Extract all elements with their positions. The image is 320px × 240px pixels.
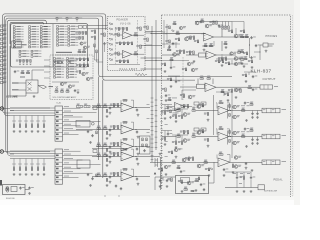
resistor R62 xyxy=(250,128,253,132)
wire stack fanout xyxy=(63,168,81,170)
ground xyxy=(251,66,254,69)
resistor R45 xyxy=(57,44,67,46)
op-amp U4 xyxy=(206,51,216,59)
ground xyxy=(243,190,246,193)
resistor R112 xyxy=(176,31,179,35)
label tap xyxy=(30,120,34,123)
resistor R216 xyxy=(225,62,230,65)
resistor R70 xyxy=(54,71,64,73)
resistor R210 xyxy=(241,49,244,53)
capacitor C27 xyxy=(236,176,242,179)
connector pin P1 xyxy=(0,24,6,27)
resistor R105 xyxy=(136,27,141,30)
ground xyxy=(37,130,40,133)
resistor R183 xyxy=(167,178,172,181)
resistor R206 xyxy=(194,40,199,43)
wire bus xyxy=(10,112,55,114)
transistor Q10 xyxy=(234,34,241,38)
capacitor C34 xyxy=(252,75,258,78)
resistor R35 xyxy=(110,153,115,156)
resistor R5 xyxy=(13,36,23,38)
wire preamp fb xyxy=(121,169,134,176)
resistor R21 xyxy=(40,31,50,33)
transistor Q3 xyxy=(82,72,89,75)
capacitor C17 xyxy=(244,128,250,131)
svg-text:PEDAL: PEDAL xyxy=(274,178,284,181)
wire preamp output xyxy=(133,107,150,109)
resistor R5 xyxy=(199,104,204,107)
connector J3 terminal strip xyxy=(262,134,280,139)
ground xyxy=(175,156,178,159)
wire right drops xyxy=(232,22,236,35)
ground xyxy=(225,46,228,49)
resistor R207 xyxy=(228,30,233,33)
switch S6 xyxy=(79,26,83,29)
ground xyxy=(164,70,167,73)
capacitor C10 xyxy=(87,130,89,133)
transformer T1 xyxy=(6,187,9,190)
resistor R86 xyxy=(84,64,89,67)
capacitor C35 xyxy=(175,80,181,83)
resistor R70 xyxy=(106,159,108,162)
resistor R75 xyxy=(67,63,77,65)
ground xyxy=(236,190,239,193)
resistor R72 xyxy=(54,76,64,78)
wire input bus 1 xyxy=(3,14,106,110)
resistor R33 xyxy=(97,153,100,157)
label fanout xyxy=(64,170,73,173)
resistor R181 xyxy=(195,178,198,182)
svg-text:4558: 4558 xyxy=(123,170,127,172)
resistor R57 xyxy=(204,113,209,116)
label header xyxy=(56,52,72,53)
arrow output xyxy=(38,86,47,89)
wire preamp input xyxy=(92,107,121,109)
resistor R37 xyxy=(97,173,100,177)
resistor R52 xyxy=(68,42,78,44)
capacitor C8 xyxy=(165,94,171,97)
svg-text:4558: 4558 xyxy=(123,123,127,125)
label b12 xyxy=(20,77,25,78)
svg-text:1SS-133: 1SS-133 xyxy=(192,133,199,135)
transistor Q37 xyxy=(174,148,181,151)
wire tap xyxy=(37,116,39,125)
diode D7 xyxy=(109,54,112,56)
op-amp U2 xyxy=(123,51,133,59)
resistor R231 xyxy=(219,152,223,156)
wire stack fanout xyxy=(63,177,79,179)
resistor R44 xyxy=(57,42,67,44)
label tap xyxy=(42,120,46,123)
transistor Q12 xyxy=(173,53,180,57)
transistor Q7 xyxy=(185,37,192,41)
connector pin P13 xyxy=(0,77,6,80)
switch S10 cross xyxy=(56,86,59,89)
wire stack fanout xyxy=(63,155,97,157)
label tape2 xyxy=(12,89,19,90)
resistor R44 xyxy=(31,124,33,127)
resistor R39 xyxy=(57,28,67,30)
wire tap xyxy=(25,159,27,168)
ground xyxy=(137,163,140,166)
resistor R103 xyxy=(120,60,125,63)
ground xyxy=(19,130,22,133)
junction xyxy=(222,55,223,56)
junction xyxy=(230,136,231,137)
label fanout xyxy=(64,157,73,160)
label terminal xyxy=(282,134,287,137)
resistor R241 xyxy=(96,50,98,53)
resistor R135 xyxy=(228,89,233,92)
ground xyxy=(159,185,162,188)
ground xyxy=(106,115,109,118)
svg-text:1SS-133: 1SS-133 xyxy=(192,107,199,109)
power amp enclosure dashed border xyxy=(162,15,291,197)
wire bus xyxy=(10,107,55,109)
junction xyxy=(230,110,231,111)
resistor R12 xyxy=(29,31,39,33)
wire phones drops xyxy=(250,38,261,60)
resistor R114 xyxy=(190,36,195,39)
label fanout xyxy=(64,123,71,126)
resistor R48 xyxy=(68,31,78,33)
connector pin P9 xyxy=(0,59,6,62)
ground xyxy=(137,114,140,117)
resistor R7 xyxy=(229,114,231,117)
ground xyxy=(165,99,168,102)
ground xyxy=(245,145,248,148)
ground xyxy=(169,116,172,119)
wire bottom row xyxy=(150,162,218,164)
capacitor C41 xyxy=(223,168,229,171)
junction xyxy=(202,33,203,34)
resistor R30 xyxy=(104,143,107,147)
resistor R66 xyxy=(106,132,108,135)
resistor R38 xyxy=(57,26,67,28)
resistor R97 xyxy=(134,51,137,55)
svg-text:PHONES: PHONES xyxy=(266,35,278,38)
resistor R4 xyxy=(192,108,195,112)
resistor R3 xyxy=(184,105,189,108)
transistor Q7 xyxy=(233,131,240,135)
wire upper drops xyxy=(95,47,104,62)
resistor R65 xyxy=(123,121,127,123)
diode D5 xyxy=(109,43,112,45)
ground xyxy=(109,134,112,137)
resistor R49 xyxy=(68,34,78,36)
resistor R262 xyxy=(168,97,171,101)
ground xyxy=(245,119,248,122)
resistor R50 xyxy=(68,36,78,38)
resistor R1 xyxy=(13,26,23,28)
op-amp U4 xyxy=(121,125,133,134)
resistor R12 xyxy=(192,134,195,138)
diode D10 xyxy=(172,30,175,32)
wire fb loop xyxy=(216,103,230,111)
resistor R202 xyxy=(175,38,180,41)
wire inner dotted rail 2 xyxy=(137,20,139,64)
regulator box xyxy=(176,176,209,194)
wire cap drops xyxy=(253,111,258,113)
wire stack fanout xyxy=(63,172,93,174)
capacitor C9 xyxy=(109,176,114,179)
svg-text:KLH-1847: KLH-1847 xyxy=(120,67,138,71)
svg-text:PEAKER: PEAKER xyxy=(117,19,129,22)
resistor R220 xyxy=(221,89,224,93)
wire preamp input xyxy=(92,176,121,178)
op-amp U5 xyxy=(205,83,216,92)
diode D4 xyxy=(109,38,112,40)
resistor R107 xyxy=(91,30,96,33)
resistor R57 xyxy=(75,37,80,40)
capacitor C20 xyxy=(136,148,138,151)
wire top right xyxy=(232,22,244,31)
ic connector stack A xyxy=(55,106,63,141)
resistor R255 xyxy=(146,144,148,147)
switch contact S3 xyxy=(76,17,82,22)
wire amp nets xyxy=(52,62,84,82)
transistor Q24 xyxy=(197,164,204,168)
switch S7 xyxy=(83,26,87,29)
resistor R58 xyxy=(250,102,253,106)
diode D6 xyxy=(109,49,112,51)
resistor R54 xyxy=(75,32,80,35)
wire tap xyxy=(37,159,39,168)
resistor R84 xyxy=(76,64,81,67)
label tap xyxy=(18,120,22,123)
op-amp U3 xyxy=(121,103,133,112)
ground xyxy=(245,167,248,170)
resistor R68 xyxy=(106,149,108,152)
wire row input xyxy=(162,110,176,112)
eq network box xyxy=(140,136,151,154)
ground xyxy=(166,185,169,188)
connector pin P10 xyxy=(0,63,6,66)
resistor R213 xyxy=(161,63,166,66)
resistor R136 xyxy=(236,89,241,92)
capacitor C5 xyxy=(109,107,114,110)
resistor R98 xyxy=(116,42,121,45)
wire fb loop xyxy=(216,129,230,137)
junction xyxy=(136,146,137,147)
resistor R71 xyxy=(123,168,127,170)
resistor R132 network box xyxy=(197,84,205,88)
resistor R92 xyxy=(119,28,124,31)
resistor R20 xyxy=(178,141,183,144)
resistor R23 xyxy=(110,104,115,107)
capacitor C2 xyxy=(256,112,258,115)
switch contact S1 xyxy=(56,17,62,22)
wire row in bias xyxy=(162,105,172,112)
wire preamp input xyxy=(76,129,121,131)
junction xyxy=(166,33,167,34)
resistor R89 xyxy=(61,89,64,93)
resistor R243 xyxy=(191,190,194,192)
resistor R121 xyxy=(241,34,244,38)
wire upper output xyxy=(214,30,249,51)
transistor Q11 xyxy=(234,57,241,61)
wire rail bends A xyxy=(3,110,10,116)
transistor Q5 xyxy=(60,82,67,85)
transistor Q34 xyxy=(234,62,241,65)
capacitor C24 xyxy=(200,183,206,186)
wire stack fanout xyxy=(63,107,81,109)
resistor R106 xyxy=(136,45,141,48)
resistor R116 xyxy=(209,21,214,24)
resistor R68 xyxy=(54,66,64,68)
transistor Q32 xyxy=(187,62,194,65)
label tape1 xyxy=(12,82,19,83)
ground xyxy=(208,174,211,177)
ground xyxy=(37,173,40,176)
ground xyxy=(256,116,259,119)
label tap xyxy=(42,163,46,166)
junction xyxy=(260,52,261,53)
resistor R11 xyxy=(184,131,189,134)
resistor R64 xyxy=(106,110,108,113)
capacitor C1 xyxy=(69,60,74,63)
wire pedal feed xyxy=(225,172,237,176)
resistor R51 xyxy=(68,39,78,41)
wire tap xyxy=(31,116,33,125)
capacitor C7 xyxy=(109,146,114,149)
resistor R252 xyxy=(142,138,144,141)
wire stack fanout xyxy=(63,150,81,152)
wire bus xyxy=(10,153,55,155)
ground xyxy=(137,183,140,186)
resistor R123 xyxy=(241,57,244,61)
resistor R115 xyxy=(201,19,204,23)
resistor R124 xyxy=(168,47,171,51)
wire rail taps xyxy=(145,33,152,45)
connector pin P8 xyxy=(0,55,6,58)
wire peak internal outputs xyxy=(132,35,144,54)
resistor R222 xyxy=(167,78,172,81)
ground xyxy=(265,50,268,53)
transistor Q33 xyxy=(191,68,198,71)
resistor R53 xyxy=(43,167,45,170)
ground xyxy=(137,153,140,156)
wire preamp output xyxy=(133,156,150,158)
resistor R58 xyxy=(79,37,84,40)
ground xyxy=(232,171,235,174)
wire stack fanout xyxy=(63,163,101,165)
resistor R66 xyxy=(54,60,64,62)
resistor R200 xyxy=(165,26,170,29)
label fanout xyxy=(64,118,69,121)
resistor R211 xyxy=(182,68,187,71)
resistor R18 xyxy=(29,46,39,48)
resistor R16 xyxy=(29,41,39,43)
resistor R138 xyxy=(180,94,185,97)
resistor R102 xyxy=(116,60,121,63)
resistor R118 xyxy=(218,26,223,29)
wire input bus 5 xyxy=(10,22,44,44)
resistor R88 xyxy=(55,89,58,93)
resistor network RN1 xyxy=(172,102,206,115)
ground xyxy=(109,151,112,154)
label ladder marks xyxy=(165,107,168,110)
ground xyxy=(26,63,28,66)
ground xyxy=(43,173,46,176)
label fanout xyxy=(64,114,73,117)
capacitor C32 xyxy=(255,44,261,47)
ground xyxy=(106,184,109,187)
resistor R110 xyxy=(143,26,148,29)
ground xyxy=(170,85,173,88)
resistor R91 xyxy=(115,28,120,31)
ground xyxy=(89,141,92,144)
junction xyxy=(136,129,137,130)
ground xyxy=(221,64,224,67)
wire rail ticks xyxy=(151,98,158,160)
ground xyxy=(223,174,226,177)
resistor R31 xyxy=(31,50,41,52)
label pedal parts xyxy=(233,172,236,175)
transistor Q30 xyxy=(187,181,194,185)
wire stack fanout xyxy=(63,134,79,136)
resistor R40 xyxy=(114,173,119,176)
label fanout xyxy=(64,148,69,151)
connector pin P12 xyxy=(0,72,6,75)
diode D3 xyxy=(109,33,112,35)
resistor R71 xyxy=(54,74,64,76)
resistor R104 xyxy=(124,60,129,63)
resistor R209 xyxy=(240,30,245,33)
capacitor C46 xyxy=(245,162,247,165)
ground xyxy=(13,173,16,176)
wire to peak display 2 xyxy=(88,28,108,30)
ground xyxy=(227,99,230,102)
resistor R20 xyxy=(40,28,50,30)
resistor R42 xyxy=(57,36,67,38)
resistor R126 xyxy=(180,50,185,53)
resistor R10 xyxy=(29,26,39,28)
capacitor C31 xyxy=(218,24,224,27)
resistor R74 xyxy=(67,60,77,62)
label tap xyxy=(36,163,40,166)
enclosure left dashed edge xyxy=(161,15,163,190)
resistor R2 xyxy=(13,28,23,30)
resistor R208 xyxy=(224,41,227,45)
wire input bus 4 xyxy=(7,20,46,152)
wire signal L xyxy=(99,74,232,76)
rec out box A xyxy=(76,121,90,128)
resistor R113 xyxy=(186,36,191,39)
resistor R221 xyxy=(224,93,229,96)
input selector block outline xyxy=(11,24,88,67)
capacitor C18 xyxy=(136,109,138,112)
resistor R37 xyxy=(26,60,31,63)
junction part xyxy=(93,150,97,153)
peak display unit outline xyxy=(108,17,146,71)
capacitor C14 xyxy=(167,107,173,110)
resistor R16 xyxy=(242,134,245,138)
resistor R13 xyxy=(199,130,204,133)
wire rail bends B xyxy=(6,150,10,156)
capacitor C13 xyxy=(91,177,93,180)
resistor R111 xyxy=(143,38,148,41)
resistor R62 xyxy=(58,61,63,64)
connector pin P6 xyxy=(0,46,6,49)
resistor R67 xyxy=(54,63,64,65)
transistor Q25 xyxy=(234,156,241,160)
capacitor C15 xyxy=(244,102,250,105)
resistor R41 xyxy=(57,34,67,36)
vol control amp assy outline xyxy=(50,55,93,100)
record switch box xyxy=(12,41,21,48)
svg-text:KLH MOD./DH: KLH MOD./DH xyxy=(264,191,278,193)
